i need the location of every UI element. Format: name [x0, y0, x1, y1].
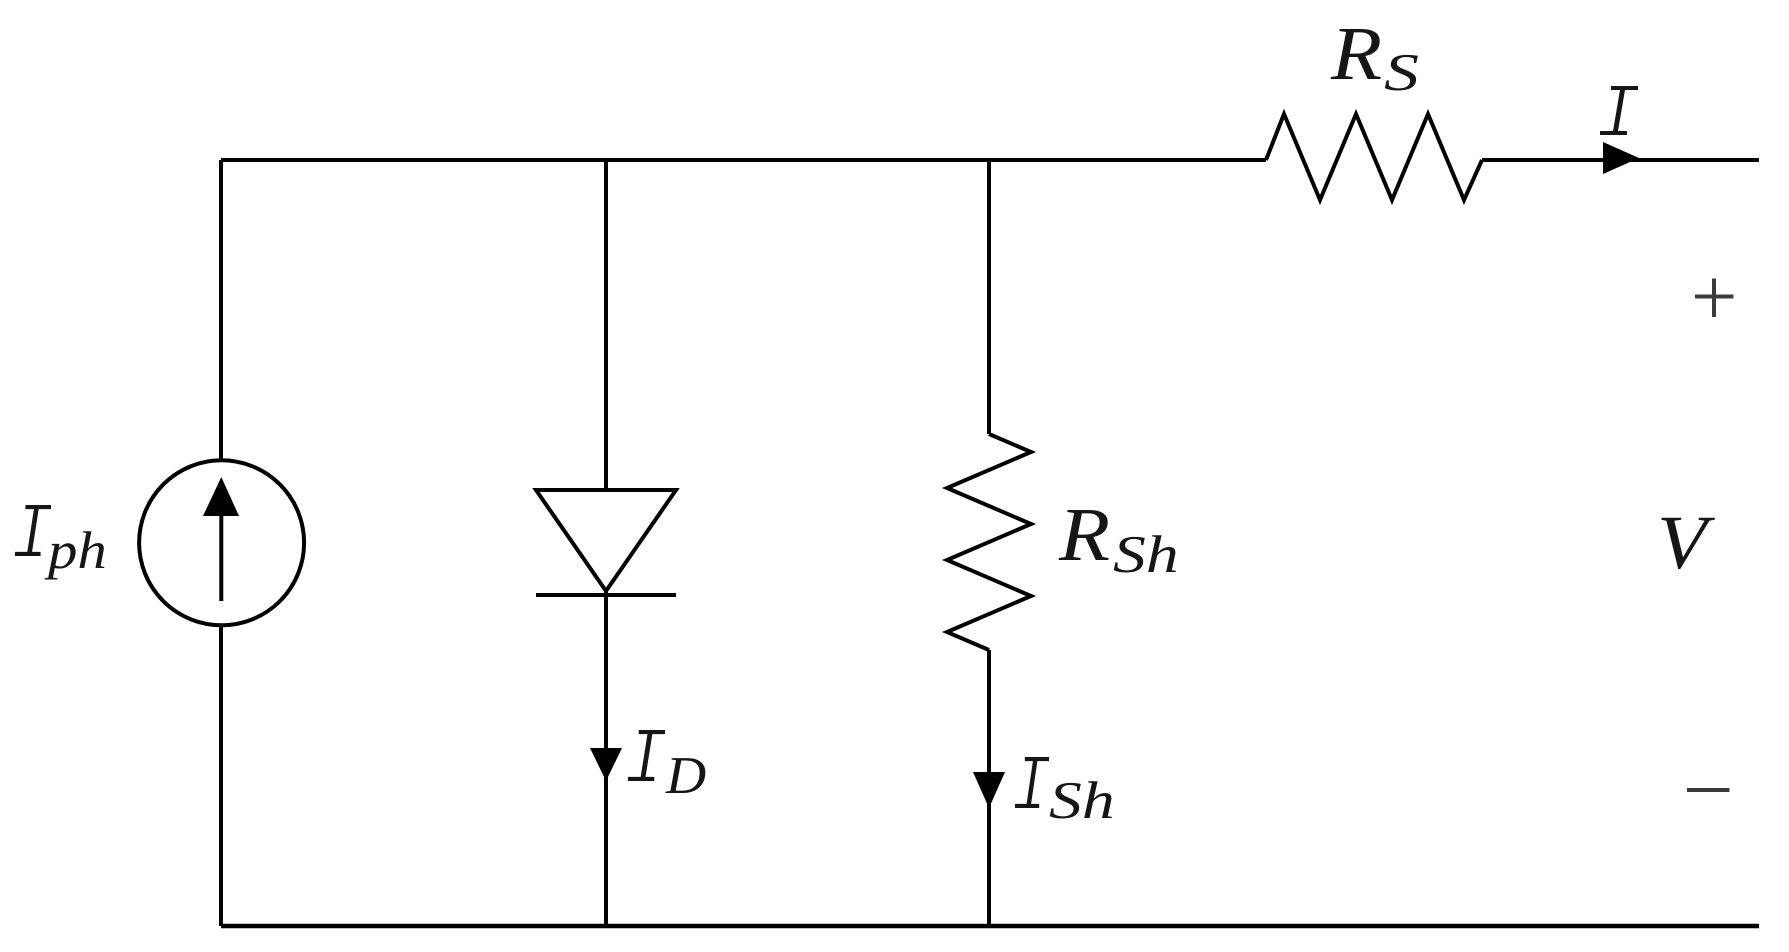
wire diode branch upper	[604, 160, 608, 488]
svg-text:D: D	[665, 746, 706, 805]
current source arrow shaft	[219, 500, 223, 601]
svg-text:R: R	[1058, 493, 1110, 577]
wire left branch lower	[219, 625, 223, 926]
arrow I head	[1603, 142, 1639, 174]
resistor RSh zigzag	[947, 434, 1031, 650]
wire left branch upper	[219, 160, 223, 461]
wire top rail right segment	[1482, 158, 1759, 162]
svg-text:S: S	[1384, 44, 1419, 102]
plus sign	[1695, 279, 1734, 318]
diode D1 triangle	[536, 490, 676, 591]
minus sign	[1687, 788, 1730, 792]
diode D1 cathode bar	[536, 593, 676, 597]
wire top rail left segment	[221, 158, 1266, 162]
svg-text:R: R	[1330, 12, 1382, 96]
wire shunt branch upper	[987, 160, 991, 434]
svg-text:ph: ph	[44, 522, 107, 581]
wire diode branch lower	[604, 592, 608, 926]
arrow ID head	[590, 748, 622, 781]
label ID	[628, 730, 665, 781]
wire bottom rail	[221, 924, 1759, 929]
label Iph	[15, 505, 51, 556]
wire shunt branch lower	[987, 650, 991, 926]
arrow ISh head	[973, 772, 1005, 808]
label I	[1600, 86, 1638, 135]
svg-text:Sh: Sh	[1113, 525, 1179, 584]
label ISh	[1015, 757, 1049, 808]
svg-text:Sh: Sh	[1049, 771, 1115, 830]
current source arrow head	[203, 477, 239, 516]
svg-text:V: V	[1657, 502, 1715, 586]
resistor RS zigzag	[1266, 114, 1482, 200]
current source U1 circle	[139, 460, 304, 625]
